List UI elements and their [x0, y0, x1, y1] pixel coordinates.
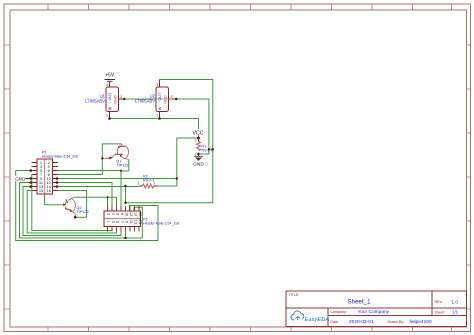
- svg-text:12: 12: [129, 212, 133, 216]
- power flag +5V: [105, 73, 116, 82]
- svg-text:Drawn By:: Drawn By:: [388, 320, 405, 324]
- header P2 2x8: [104, 206, 142, 232]
- label P2: [143, 218, 179, 226]
- svg-text:VCC: VCC: [193, 130, 204, 136]
- svg-text:1: 1: [156, 114, 158, 118]
- svg-text:TIP122: TIP122: [77, 210, 89, 214]
- svg-text:2: 2: [171, 95, 173, 99]
- label P1: [42, 151, 78, 159]
- svg-text:1/1: 1/1: [452, 310, 459, 315]
- wire Q2 collector to P2 pin2 and pin6: [74, 197, 117, 206]
- svg-text:IN: IN: [158, 106, 162, 110]
- svg-text:9: 9: [125, 221, 129, 223]
- svg-text:TIP122: TIP122: [116, 163, 128, 167]
- wire R2 line branch down to P2 pin10: [125, 186, 127, 205]
- svg-text:IN: IN: [108, 106, 112, 110]
- regulator U2 L7805ABV: [124, 80, 176, 119]
- border frame ticks top: [48, 4, 452, 10]
- resistor R1: [195, 138, 201, 157]
- svg-text:REV:: REV:: [435, 300, 443, 304]
- svg-text:13: 13: [134, 220, 138, 224]
- wire P1 pin6 to P2 pin8: [58, 171, 121, 207]
- svg-text:GND: GND: [114, 95, 118, 104]
- svg-text:Your Company: Your Company: [358, 309, 390, 315]
- wire U1 pin1 / U2 pin1 bottom rail to VCC: [110, 119, 199, 139]
- svg-text:5: 5: [116, 221, 120, 223]
- header P1 2x8: [32, 159, 59, 194]
- svg-text:15: 15: [39, 189, 43, 193]
- svg-text:16: 16: [138, 212, 142, 216]
- svg-text:2: 2: [195, 139, 197, 143]
- border frame ticks left: [4, 45, 10, 309]
- transistor Q1 TIP122: [103, 144, 129, 160]
- svg-text:1.0: 1.0: [452, 299, 459, 304]
- label U1: [85, 94, 106, 104]
- svg-text:OUT: OUT: [158, 92, 162, 101]
- svg-text:EasyEDA: EasyEDA: [305, 317, 330, 323]
- wire U1 pin2 to U2 pin2 to R1 bottom (net): [124, 99, 209, 154]
- svg-text:Header-Male-2.54_2x8: Header-Male-2.54_2x8: [143, 222, 179, 226]
- svg-text:Date:: Date:: [331, 320, 340, 324]
- svg-text:6: 6: [116, 213, 120, 215]
- svg-text:L7805ABV: L7805ABV: [135, 99, 155, 104]
- svg-text:7: 7: [120, 221, 124, 223]
- svg-text:GND: GND: [164, 95, 168, 104]
- label U2: [135, 94, 156, 104]
- svg-text:Company:: Company:: [331, 310, 347, 314]
- wire P1 pin7 to P2 pin3: [32, 175, 112, 231]
- svg-text:GND: GND: [15, 176, 26, 181]
- svg-text:RS-2-1: RS-2-1: [143, 179, 154, 183]
- svg-text:+5V: +5V: [105, 73, 115, 79]
- wire P1 pin13 to P2 pin7: [23, 187, 121, 236]
- wire Q1 emitter loop to P2 pin8 rail: [121, 159, 129, 171]
- resistor R2: [138, 182, 158, 189]
- svg-text:3: 3: [106, 83, 108, 87]
- regulator U1 L7805ABV: [106, 81, 124, 119]
- border frame ticks right: [467, 45, 471, 309]
- label R2: [143, 175, 154, 183]
- net label GND at P1: [15, 176, 32, 182]
- label R1: [202, 145, 213, 153]
- wire P1 pin16 to Q2 emitter: [58, 191, 87, 218]
- wire P1 bottom to Q2 base: [45, 194, 61, 205]
- svg-text:2: 2: [107, 213, 111, 215]
- wire P1 pin11 to P2 pin9: [20, 183, 126, 239]
- svg-text:RS-2-1: RS-2-1: [202, 149, 213, 153]
- label Q1: [116, 159, 128, 167]
- svg-text:GND: GND: [193, 162, 204, 168]
- svg-text:L7805ABV: L7805ABV: [85, 99, 105, 104]
- svg-text:1: 1: [107, 221, 111, 223]
- svg-text:10: 10: [125, 212, 129, 216]
- svg-text:3: 3: [156, 83, 158, 87]
- label Q2: [77, 206, 89, 214]
- svg-text:8: 8: [120, 213, 124, 215]
- svg-text:3: 3: [111, 221, 115, 223]
- svg-text:16: 16: [47, 189, 51, 193]
- wire P1 pin10 to VCC vertical: [58, 178, 177, 180]
- border frame ticks bottom: [48, 328, 452, 332]
- svg-text:felipe4100: felipe4100: [410, 319, 432, 325]
- svg-text:15: 15: [138, 220, 142, 224]
- EasyEDA logo: [291, 311, 329, 323]
- wire bundle branch to P2 pin14 around right side: [126, 207, 143, 238]
- wire P1 pin15 to P2 pin5: [27, 191, 116, 234]
- svg-text:Header-Male-2.54_2x8: Header-Male-2.54_2x8: [42, 155, 78, 159]
- junction dots: [30, 98, 215, 240]
- wire P1 pin8 to Q1 base and collector: [58, 144, 122, 175]
- wire P1 pin12 to P2 pin4: [58, 183, 112, 207]
- svg-text:TITLE:: TITLE:: [289, 293, 300, 297]
- wire U2 pin3 loop right and down to P2 pin10: [126, 80, 213, 205]
- ground GND below R1: [193, 156, 204, 167]
- svg-text:1: 1: [138, 182, 140, 186]
- wire P1 pin5 to P2 pin12 via bottom loop: [16, 171, 158, 241]
- title block: [286, 291, 467, 327]
- svg-text:11: 11: [129, 220, 133, 224]
- svg-text:Sheet:: Sheet:: [435, 311, 445, 315]
- svg-text:Sheet_1: Sheet_1: [348, 299, 372, 306]
- svg-text:OUT: OUT: [108, 92, 112, 101]
- transistor Q2 TIP122: [60, 197, 75, 217]
- svg-text:2: 2: [120, 95, 122, 99]
- wire link between verticals near R1: [209, 148, 213, 150]
- svg-text:2020-03-01: 2020-03-01: [349, 319, 374, 325]
- svg-text:14: 14: [134, 212, 138, 216]
- svg-text:4: 4: [111, 213, 115, 215]
- svg-text:1: 1: [106, 114, 108, 118]
- power flag VCC: [193, 129, 205, 136]
- wire VCC junction to R2 pin2: [155, 138, 199, 186]
- wire P1 pin14 to R2 pin1: [58, 186, 139, 188]
